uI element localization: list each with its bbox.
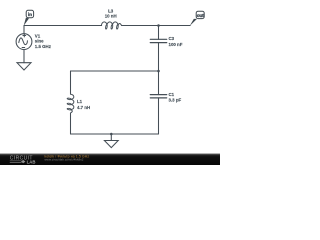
svg-text:1.5 GHz: 1.5 GHz [35, 44, 52, 49]
junction dot at loop top / right edge [157, 70, 160, 73]
footer CircuitLab logo [10, 155, 36, 164]
svg-text:3.3 pF: 3.3 pF [169, 98, 182, 103]
svg-text:4.7 nH: 4.7 nH [77, 105, 90, 110]
svg-text:out: out [197, 13, 204, 19]
wire right vertical: C3 down to loop-top junction [158, 43, 160, 71]
wire ground stem bottom [110, 134, 112, 141]
svg-text:C1: C1 [169, 92, 175, 97]
wire loop top from left edge to right edge [71, 70, 159, 72]
svg-text:100 nF: 100 nF [169, 42, 183, 47]
inductor L1 [67, 94, 74, 113]
svg-text:in: in [28, 12, 32, 17]
node flag "in" pointer [24, 18, 29, 26]
capacitor C1 bottom plate [150, 97, 166, 99]
wire loop left lower stub [70, 113, 72, 134]
wire loop left upper stub [70, 71, 72, 94]
ground symbol under V1 [17, 63, 31, 70]
svg-text:L1: L1 [77, 99, 83, 104]
capacitor C3 top plate [150, 38, 166, 40]
wire right vertical: C1 down to bottom corner [158, 98, 160, 134]
V1 sine glyph [19, 38, 28, 45]
wire top left segment from V1 top corner to L3 [24, 25, 102, 27]
svg-text:LAB: LAB [27, 159, 36, 164]
footer bar top edge line [0, 153, 220, 156]
node flag "in" box [26, 10, 33, 17]
inductor L3 [102, 22, 122, 29]
wire V1 top stub [23, 26, 25, 34]
wire V1 bottom stub to ground [23, 50, 25, 63]
wire right vertical: top wire down to C3 [158, 26, 160, 40]
wire right vertical: junction down to C1 [158, 71, 160, 95]
node flag "out" box [196, 11, 204, 18]
voltage source V1 circle [16, 34, 32, 50]
capacitor C1 top plate [150, 94, 166, 96]
svg-text:sine: sine [35, 39, 44, 44]
svg-text:10 nH: 10 nH [105, 14, 117, 19]
junction dot at top wire / C3 [157, 24, 160, 27]
V1 minus sign [22, 47, 25, 49]
junction dot at bottom ground [110, 133, 113, 136]
wire loop bottom [71, 133, 159, 135]
node flag "out" pointer [190, 19, 197, 26]
capacitor C3 bottom plate [150, 42, 166, 44]
ground symbol bottom [104, 141, 118, 148]
wire top right segment from L3 to out flag [122, 25, 191, 27]
svg-text:www.circuitlab.com/c/4kk8s2: www.circuitlab.com/c/4kk8s2 [45, 158, 84, 162]
svg-text:C3: C3 [169, 36, 175, 41]
V1 plus sign [23, 34, 26, 37]
